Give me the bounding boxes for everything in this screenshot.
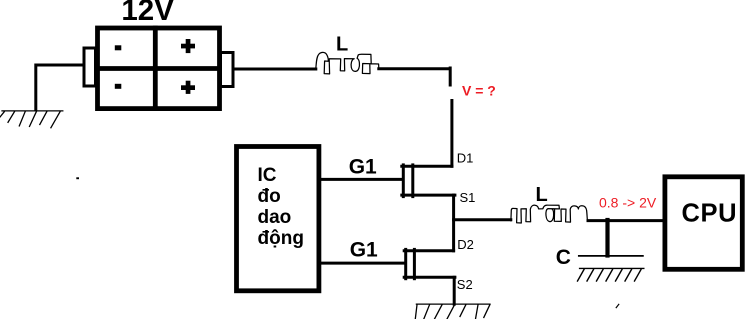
svg-text:S2: S2 (457, 277, 473, 292)
wire G1 (IC output) to Q2 gate (320, 262, 404, 265)
CPU U2 box (665, 177, 742, 269)
IC U1 box (237, 147, 319, 291)
wire G1 (IC output) to Q1 gate (320, 178, 402, 181)
wire inductor L to node V (379, 68, 450, 85)
stray ink mark (left of IC) (76, 177, 79, 179)
svg-text:0.8 -> 2V: 0.8 -> 2V (599, 195, 657, 211)
inductor L (input filter, hand-drawn coil) (316, 52, 379, 74)
svg-text:đo: đo (258, 186, 281, 207)
svg-text:G1: G1 (350, 239, 378, 262)
battery cell polarity mark: bottom-left minus (115, 84, 122, 89)
wire battery negative terminal to ground (36, 65, 83, 110)
battery cell polarity mark: bottom-right plus (181, 81, 195, 94)
svg-text:D2: D2 (457, 237, 474, 252)
transistor Q1 (top MOSFET) (402, 165, 455, 197)
svg-text:V = ?: V = ? (462, 83, 496, 99)
ground (battery negative) (0, 111, 63, 128)
svg-text:C: C (556, 246, 571, 269)
svg-text:L: L (336, 34, 348, 56)
wire junction to capacitor C (605, 220, 609, 256)
transistor Q2 (bottom MOSFET) (404, 249, 455, 278)
ground (capacitor C) (578, 268, 644, 281)
wire S1 to D2 (452, 195, 455, 251)
battery left terminal tab (84, 48, 96, 86)
inductor L (output filter, hand-drawn coil) (511, 205, 588, 223)
battery B1 (12V pack, 2x2 cells) (98, 28, 220, 109)
stray ink mark (below output wire) (616, 304, 619, 307)
svg-text:S1: S1 (460, 190, 476, 205)
label IC đo dao động (258, 165, 304, 249)
battery cell polarity mark: top-left minus (115, 45, 122, 50)
svg-text:động: động (258, 228, 304, 249)
svg-text:L: L (536, 184, 548, 206)
wire output inductor to CPU (588, 219, 663, 222)
capacitor C (top plate) (579, 255, 643, 257)
wire node S1 to output inductor L (454, 218, 511, 221)
wire battery positive terminal to inductor L (234, 68, 316, 71)
svg-text:CPU: CPU (682, 199, 738, 227)
battery cell polarity mark: top-right plus (181, 39, 195, 53)
svg-text:12V: 12V (121, 0, 174, 27)
svg-text:dao: dao (258, 207, 292, 228)
wire S2 to ground (453, 277, 456, 304)
battery right terminal tab (221, 53, 234, 87)
svg-text:IC: IC (258, 165, 277, 186)
wire node V to drain D1 (450, 101, 453, 167)
svg-text:D1: D1 (457, 150, 474, 165)
svg-text:G1: G1 (349, 155, 377, 178)
ground (source S2) (415, 304, 490, 319)
